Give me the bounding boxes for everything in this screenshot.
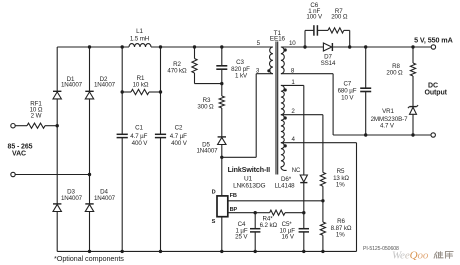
svg-text:LL4148: LL4148 xyxy=(274,183,295,190)
svg-text:C2: C2 xyxy=(175,124,183,131)
svg-text:D: D xyxy=(212,189,216,195)
node polarity dot secondary xyxy=(284,48,287,51)
svg-text:C3: C3 xyxy=(236,59,244,66)
wire C6 to R7 xyxy=(317,29,328,31)
resistor R6 xyxy=(322,201,324,222)
node junction bottom bus C2 xyxy=(159,250,162,253)
diode D1 xyxy=(53,90,61,92)
diode D4 xyxy=(85,203,93,205)
capacitor C1 xyxy=(117,133,128,135)
svg-text:100 V: 100 V xyxy=(306,14,323,21)
wire output return rail xyxy=(333,134,431,136)
wire drain pin to IC xyxy=(221,157,223,196)
transformer secondary winding pins 10-8 xyxy=(281,47,284,74)
svg-text:S: S xyxy=(212,219,216,225)
wire VR1 to return rail xyxy=(412,114,414,135)
node junction snubber left xyxy=(303,45,306,48)
svg-text:LinkSwitch-II: LinkSwitch-II xyxy=(228,166,271,174)
svg-text:U1: U1 xyxy=(244,176,253,183)
svg-text:470 kΩ: 470 kΩ xyxy=(167,68,187,75)
node junction bottom bus C1 xyxy=(121,250,124,253)
zener diode VR1 xyxy=(409,106,416,108)
node junction top bus at D2 xyxy=(88,45,91,48)
capacitor C2 xyxy=(155,133,166,135)
input terminal N (neutral) xyxy=(11,172,15,176)
svg-text:1N4007: 1N4007 xyxy=(196,147,218,154)
wire D5 to drain node xyxy=(221,145,223,158)
svg-text:1 kV: 1 kV xyxy=(235,73,248,80)
resistor R5 xyxy=(320,172,325,186)
transformer T1 core xyxy=(275,42,277,175)
node polarity dot winding 2-4 xyxy=(284,116,287,119)
wire pin 8 to return rail xyxy=(281,73,333,75)
svg-text:C7: C7 xyxy=(343,80,351,87)
diode D3 xyxy=(53,203,61,205)
node polarity dot primary xyxy=(267,69,270,72)
svg-text:1N4007: 1N4007 xyxy=(61,82,83,89)
svg-text:10 kΩ: 10 kΩ xyxy=(133,82,149,89)
node junction bottom bus R6 xyxy=(321,250,324,253)
svg-text:1N4007: 1N4007 xyxy=(94,82,116,89)
svg-text:1%: 1% xyxy=(336,231,345,238)
wire NC curl xyxy=(281,167,287,171)
svg-text:300 Ω: 300 Ω xyxy=(197,104,214,111)
capacitor C3 xyxy=(221,47,223,66)
output terminal negative xyxy=(431,133,435,137)
svg-text:200 Ω: 200 Ω xyxy=(386,70,403,77)
node junction top bus at C1 xyxy=(121,45,124,48)
wire pin 4 to bottom bus corner xyxy=(281,142,357,144)
resistor R2 xyxy=(194,47,196,59)
svg-text:16 V: 16 V xyxy=(282,234,295,241)
node junction snubber right xyxy=(348,45,351,48)
wire BP pin xyxy=(228,212,255,214)
resistor R3 xyxy=(221,84,223,96)
capacitor C5* xyxy=(303,213,305,229)
svg-text:1N4007: 1N4007 xyxy=(61,195,83,202)
svg-text:VR1: VR1 xyxy=(382,108,394,115)
wire input line 2 to bridge xyxy=(15,174,89,176)
wire snubber left riser xyxy=(304,30,306,47)
svg-text:C1: C1 xyxy=(135,124,143,131)
diode D2 xyxy=(85,90,93,92)
node junction bottom bus source xyxy=(220,250,223,253)
svg-text:680 µF: 680 µF xyxy=(338,88,357,95)
svg-text:LNK613DG: LNK613DG xyxy=(233,183,265,190)
svg-text:6.2 kΩ: 6.2 kΩ xyxy=(260,222,278,229)
node junction top bus at C2 xyxy=(159,45,162,48)
svg-text:1N4007: 1N4007 xyxy=(94,195,116,202)
output terminal positive xyxy=(431,45,435,49)
svg-text:25 V: 25 V xyxy=(235,234,248,241)
wire R5 to FB node xyxy=(322,186,324,201)
node junction VR1 bottom xyxy=(411,133,414,136)
svg-text:200 Ω: 200 Ω xyxy=(331,14,348,21)
wire pin 2 to R5 xyxy=(281,114,323,116)
wire output rail xyxy=(333,46,431,48)
wire pin 1 to D6 xyxy=(281,84,304,86)
svg-text:400 V: 400 V xyxy=(171,140,188,147)
wire drain node to primary pin 3 xyxy=(222,156,256,158)
svg-text:*Optional components: *Optional components xyxy=(54,254,124,263)
resistor R4* xyxy=(270,210,285,215)
resistor R7 xyxy=(328,28,344,33)
resistor R1 xyxy=(122,91,131,93)
wire source pin to bottom bus xyxy=(221,217,223,252)
node polarity dot winding 1-2 xyxy=(284,88,287,91)
svg-text:400 V: 400 V xyxy=(132,140,149,147)
node junction C7 top xyxy=(364,45,367,48)
inductor L1 xyxy=(129,44,151,47)
svg-text:FB: FB xyxy=(230,193,237,199)
svg-text:4.7 V: 4.7 V xyxy=(380,123,395,130)
svg-text:WeeQoo: WeeQoo xyxy=(392,250,429,262)
wire R7 to output rail xyxy=(344,29,350,31)
node junction RF1 to bridge xyxy=(56,124,59,127)
svg-text:L1: L1 xyxy=(136,28,143,35)
node junction R4/D6/C5 xyxy=(302,211,305,214)
node junction C7 bottom xyxy=(364,133,367,136)
node junction R1 left xyxy=(121,90,124,93)
transformer bias winding pins 1-2 xyxy=(281,85,284,114)
wire FB pin to divider xyxy=(228,200,323,202)
svg-text:NC: NC xyxy=(292,168,301,174)
wire C1 column xyxy=(121,47,123,134)
svg-text:2 W: 2 W xyxy=(31,112,42,119)
node junction top bus at R2 xyxy=(193,45,196,48)
transformer primary winding pins 5-3 xyxy=(270,47,273,74)
node junction bottom bus C4 xyxy=(254,250,257,253)
svg-text:10 V: 10 V xyxy=(341,95,354,102)
svg-text:10: 10 xyxy=(289,40,296,47)
wire pin 10 to snubber node xyxy=(281,46,305,48)
svg-text:1%: 1% xyxy=(336,182,345,189)
resistor RF1 xyxy=(27,123,45,128)
node junction BP/C4/R4 xyxy=(254,211,257,214)
svg-text:SS14: SS14 xyxy=(321,60,336,67)
svg-text:85 - 265: 85 - 265 xyxy=(8,144,33,151)
wire R2 bottom to clamp node xyxy=(195,83,222,85)
input terminal L (live) xyxy=(11,124,15,128)
transformer feedback winding pin 4-NC xyxy=(281,143,284,167)
capacitor C7 xyxy=(365,47,367,88)
resistor R8 xyxy=(412,47,414,63)
node junction R1 right xyxy=(159,90,162,93)
capacitor C4 xyxy=(254,213,256,229)
wire top bus middle segment xyxy=(151,46,273,48)
wire D1/D3 column xyxy=(56,47,58,91)
diode D5 xyxy=(218,136,226,138)
diode D6* xyxy=(300,175,307,182)
diode D7 xyxy=(305,46,323,48)
capacitor C6 xyxy=(313,25,315,36)
wire D2/D4 column xyxy=(89,47,91,91)
wire C2 column xyxy=(160,47,162,134)
node junction input 2 at D2/D4 xyxy=(88,173,91,176)
watermark CJK glyphs xyxy=(434,251,454,259)
node junction R8 top xyxy=(411,45,414,48)
op-amp U1 LNK613DG LinkSwitch-II IC box xyxy=(217,196,228,217)
wire D6 cathode to BP node xyxy=(303,183,305,213)
wire top bus left segment xyxy=(57,46,129,48)
transformer bias winding pins 2-4 xyxy=(281,115,284,143)
wire bottom bus xyxy=(57,250,356,252)
node junction top bus at C3 xyxy=(220,45,223,48)
svg-text:Output: Output xyxy=(425,90,448,97)
svg-text:1.5 mH: 1.5 mH xyxy=(130,36,149,43)
node junction FB divider xyxy=(321,199,324,202)
wire input line 1 to bridge xyxy=(15,125,27,127)
svg-text:5 V, 550 mA: 5 V, 550 mA xyxy=(414,35,453,44)
node junction bottom bus C5 xyxy=(302,250,305,253)
node polarity dot winding 4-NC xyxy=(284,144,287,147)
svg-text:DC: DC xyxy=(428,83,438,90)
node junction drain xyxy=(220,156,223,159)
svg-text:VAC: VAC xyxy=(12,151,26,158)
node junction bottom bus D4 xyxy=(88,250,91,253)
node junction clamp R2/C3/R3 xyxy=(220,82,223,85)
